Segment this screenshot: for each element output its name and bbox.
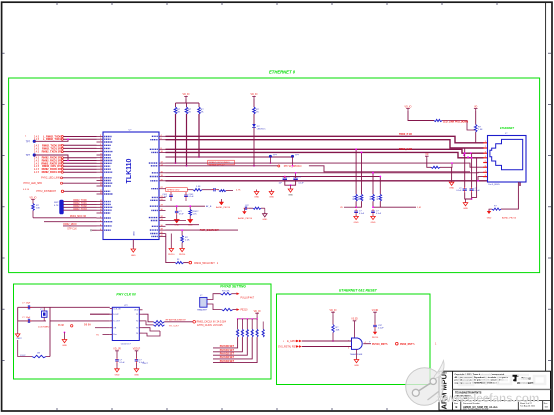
svg-text:PHY CLK IN: PHY CLK IN	[116, 292, 136, 296]
svg-text:RMII2_TXD1: RMII2_TXD1	[73, 203, 87, 205]
svg-text:RN?: RN?	[54, 202, 59, 204]
title block TI logo	[513, 375, 519, 382]
wire row 220 short	[166, 220, 187, 222]
svg-text:C? 18pF: C? 18pF	[22, 317, 31, 319]
junction dots RJ45 feed	[463, 154, 465, 156]
svg-text:10K: 10K	[336, 330, 340, 332]
connector J1 RJ45 body	[488, 136, 527, 183]
wire bus REF row	[166, 176, 381, 178]
svg-text:0.1uF: 0.1uF	[376, 213, 382, 215]
svg-text:VDD: VDD	[134, 310, 139, 312]
svg-text:PE210: PE210	[241, 310, 249, 312]
svg-text:VD_1R: VD_1R	[113, 349, 121, 351]
and gate U3 74AHC1G08	[352, 338, 363, 349]
wire bus RD+ row	[166, 149, 484, 153]
watermark circle logo	[406, 368, 444, 406]
svg-text:PHY2_LED_LINK: PHY2_LED_LINK	[41, 177, 60, 180]
svg-text:2.2K: 2.2K	[185, 240, 190, 242]
svg-text:47uF: 47uF	[179, 213, 184, 215]
IC U1 right pins	[159, 135, 166, 137]
svg-text:PHYAD2 SET: PHYAD2 SET	[220, 352, 235, 355]
svg-text:VD_IO: VD_IO	[254, 311, 261, 313]
svg-text:Rev: Rev	[544, 403, 548, 405]
svg-text:RMII2_50CLK/INT 1: RMII2_50CLK/INT 1	[194, 262, 219, 265]
svg-text:4.7K: 4.7K	[236, 190, 241, 192]
svg-text:L_RMII2_TXD1: L_RMII2_TXD1	[43, 137, 62, 141]
cap and resistor right cluster	[245, 207, 246, 210]
svg-text:GND: GND	[269, 197, 274, 199]
offpage label SPEED LED JUMBO	[208, 160, 235, 165]
capacitors C101 C102	[170, 192, 172, 194]
ground cluster caps mid	[256, 190, 258, 192]
title block frame	[439, 371, 551, 410]
resistor R 1.5K to VDD	[474, 109, 478, 111]
svg-text:RMII2_TXD2: RMII2_TXD2	[73, 206, 87, 208]
svg-text:ETHERNET 0&1 RESET: ETHERNET 0&1 RESET	[339, 288, 378, 292]
caps C bottom right pair	[464, 148, 466, 187]
svg-text:AGND_PE210: AGND_PE210	[216, 206, 231, 209]
ferrite bead FB center	[431, 166, 440, 168]
svg-text:SYS_RSTN, RST?: SYS_RSTN, RST?	[278, 346, 299, 349]
svg-text:GND: GND	[134, 374, 139, 376]
power VD reset pullup	[331, 312, 335, 314]
svg-text:0.1uF: 0.1uF	[378, 328, 384, 330]
svg-text:VD: VD	[425, 154, 429, 156]
test point TP1	[33, 140, 36, 143]
osc cap C2 with VD	[135, 351, 139, 353]
clock net labels	[164, 321, 192, 323]
wire AT_B row 206	[166, 205, 206, 207]
svg-text:PE210: PE210	[168, 254, 175, 256]
svg-text:RMII2_TXD0: RMII2_TXD0	[73, 200, 87, 202]
wire clock out path	[143, 314, 154, 322]
svg-text:AT_B: AT_B	[206, 205, 212, 208]
resistor R reset 10K	[332, 325, 334, 333]
LED D1 link branch	[252, 96, 256, 98]
svg-text:2.4.5: 2.4.5	[34, 145, 40, 147]
svg-text:2.4.5: 2.4.5	[34, 161, 40, 163]
section box ETHERNET 0 1 RESET	[277, 294, 431, 385]
reset input wires	[302, 340, 352, 342]
svg-text:4.7K: 4.7K	[54, 205, 59, 207]
section box ETHERNET 0	[9, 78, 540, 273]
resistor R_left 10K with VD_IO	[31, 200, 35, 202]
caps C pair row REF	[284, 176, 286, 179]
resistor R 2K LED row	[434, 119, 442, 121]
IC U2 pins	[110, 308, 113, 310]
IC U1 bottom pin and ground	[132, 240, 134, 248]
reset output	[363, 343, 371, 345]
svg-text:0.1uF: 0.1uF	[475, 190, 481, 192]
svg-text:2.4.5: 2.4.5	[34, 158, 40, 160]
power VD gate	[353, 321, 357, 323]
wire bus TD+ row	[166, 136, 484, 143]
wire bus AMDIX row	[166, 171, 484, 174]
svg-text:VD: VD	[474, 106, 478, 108]
wire bus RD- row	[166, 152, 484, 157]
svg-text:1,M: 1,M	[417, 207, 421, 209]
resistor R pulldown	[222, 308, 233, 310]
offpage label SPEED LED row2	[166, 188, 188, 192]
svg-text:PHYAD3 SET: PHYAD3 SET	[220, 356, 235, 359]
svg-text:OSC?: OSC?	[143, 363, 149, 365]
svg-text:RF ANTNA 50MB B?: RF ANTNA 50MB B?	[166, 318, 187, 321]
power VD at 408	[406, 109, 410, 111]
svg-text:RMII2_TXEN 3R: RMII2_TXEN 3R	[42, 150, 61, 154]
svg-text:10K: 10K	[252, 329, 254, 333]
svg-text:Cat 5_RJ45: Cat 5_RJ45	[488, 183, 500, 186]
gnd below center tap	[451, 167, 453, 180]
svg-text:PHY2_LED_SPD: PHY2_LED_SPD	[24, 182, 43, 185]
svg-text:2.4.5: 2.4.5	[34, 137, 40, 139]
svg-text:1.1K: 1.1K	[193, 213, 198, 215]
svg-text:VSS?: VSS?	[16, 338, 22, 340]
test point TP2	[33, 153, 36, 156]
svg-text:PHY10_RST?•: PHY10_RST?•	[372, 343, 388, 346]
svg-text:TP?: TP?	[26, 141, 31, 143]
svg-text:Tue Aug 16 2011: Tue Aug 16 2011	[520, 405, 536, 408]
section box PHY CLK IN	[14, 284, 272, 379]
svg-text:PHY2_INT/MDINT: PHY2_INT/MDINT	[36, 190, 56, 193]
RJ45 pin feed wires	[483, 142, 487, 144]
svg-text:RMII2_RXD1 3R: RMII2_RXD1 3R	[42, 170, 61, 174]
svg-text:GND: GND	[115, 374, 120, 376]
svg-text:PULLUP 4K7: PULLUP 4K7	[241, 298, 255, 300]
svg-text:PE210: PE210	[372, 337, 379, 339]
svg-text:VD_IO: VD_IO	[30, 197, 37, 199]
gate gnd	[356, 349, 358, 357]
svg-text:TRD0_N 1R: TRD0_N 1R	[399, 148, 412, 151]
svg-text:TRD0_P 1R: TRD0_P 1R	[399, 133, 412, 136]
svg-text:GND: GND	[262, 219, 267, 221]
svg-text:SPEED LED: SPEED LED	[167, 190, 180, 192]
svg-text:CDCLVC?: CDCLVC?	[121, 344, 132, 346]
resistor R 2.2K below	[181, 230, 183, 235]
svg-text:VDD1?: VDD1?	[133, 349, 141, 351]
wire bus LED_LINK row	[166, 156, 200, 158]
svg-text:0.1uF: 0.1uF	[189, 196, 195, 198]
svg-text:2.4.5: 2.4.5	[34, 172, 40, 174]
IC U1 left pins	[97, 136, 104, 138]
svg-text:10K: 10K	[36, 208, 40, 210]
op IC U1 TLK110 body	[103, 132, 159, 240]
svg-text:PE210: PE210	[179, 254, 186, 256]
crystal Y1	[42, 311, 48, 317]
connector J2 header	[200, 297, 207, 307]
svg-text:PHYAD0 SET: PHYAD0 SET	[220, 345, 235, 348]
wire bus TD- row	[166, 140, 484, 148]
svg-text:VD_IO: VD_IO	[405, 106, 412, 108]
junction dot TP row	[269, 155, 272, 158]
resistor R mid 1.5K row	[187, 189, 193, 191]
svg-text:1M: 1M	[37, 353, 40, 355]
svg-text:TLK110: TLK110	[126, 158, 133, 183]
svg-text:PM10_RST?•: PM10_RST?•	[400, 343, 415, 346]
svg-text:0.1uF: 0.1uF	[456, 190, 462, 192]
power VD center tap	[425, 156, 429, 158]
svg-text:TP?: TP?	[26, 155, 31, 157]
svg-text:GND: GND	[487, 218, 492, 220]
IC U2 clock buffer body	[112, 307, 139, 340]
svg-text:0.1uF: 0.1uF	[120, 362, 126, 364]
svg-text:C? 18pF: C? 18pF	[22, 302, 31, 304]
svg-text:24.576MHz?: 24.576MHz?	[38, 327, 51, 329]
resistor R pullup 4K7	[221, 293, 232, 295]
svg-text:VD_IO: VD_IO	[330, 310, 337, 312]
osc cap C1 with VD	[115, 351, 119, 353]
svg-text:CLK_IN: CLK_IN	[113, 308, 121, 310]
svg-text:VD: VD	[340, 207, 343, 209]
svg-text:GND: GND	[463, 208, 468, 210]
svg-text:GND: GND	[254, 197, 259, 199]
svg-text:RMII2_MDC 3R: RMII2_MDC 3R	[70, 216, 87, 218]
svg-text:GND: GND	[134, 231, 136, 236]
wire bus LED_ACT row	[166, 163, 484, 167]
svg-text:AGND_PE210: AGND_PE210	[502, 217, 517, 220]
PHYAD strap resistors 10K x5	[255, 313, 259, 315]
svg-text:1.5K: 1.5K	[478, 129, 483, 131]
svg-text:B: B	[456, 405, 458, 409]
svg-text:ETHERNET 0: ETHERNET 0	[269, 70, 296, 75]
svg-text:0.1uF: 0.1uF	[299, 183, 305, 185]
svg-text:V3.3D: V3.3D	[351, 319, 358, 321]
wire XI to osc	[46, 306, 110, 308]
svg-text:AGND_PE210: AGND_PE210	[238, 217, 253, 220]
wire osc mid rows	[90, 313, 110, 315]
svg-text:2.4.5: 2.4.5	[34, 169, 40, 171]
svg-text:2.4.5: 2.4.5	[34, 148, 40, 150]
svg-text:Date: Tuesday, August 16, 201: Date: Tuesday, August 16, 2011	[463, 408, 488, 411]
svg-text:TTL CLK?: TTL CLK?	[169, 326, 180, 328]
wire MDC MDIO rows	[33, 217, 97, 219]
frame zone tick marks	[56, 2, 58, 5]
svg-text:S_OUT: S_OUT	[113, 321, 120, 323]
wire clk row lower	[143, 328, 161, 331]
svg-text:GND: GND	[62, 345, 67, 347]
svg-text:VD_IO: VD_IO	[183, 94, 190, 96]
svg-text:PWR_DOWN/INT: PWR_DOWN/INT	[200, 229, 220, 232]
svg-text:RMII2_TXD3: RMII2_TXD3	[73, 209, 87, 211]
wire bus AVDD row	[166, 181, 521, 186]
svg-text:2.4.5: 2.4.5	[34, 163, 40, 165]
svg-text:LED_LINK PULLDOWN: LED_LINK PULLDOWN	[443, 122, 468, 124]
termination resistors 49.9 x4 with caps	[355, 149, 357, 194]
ground pair bottom mid	[170, 234, 172, 247]
svg-text:GND: GND	[288, 194, 293, 196]
svg-text:1.5K: 1.5K	[196, 186, 201, 188]
svg-text:GND: GND	[354, 365, 359, 367]
pull-up resistors R 2K x3 to VD_IO	[184, 96, 188, 98]
svg-text:GND: GND	[131, 255, 136, 257]
wire XO to osc	[50, 320, 110, 322]
crystal gnd	[17, 332, 19, 334]
svg-text:65 98: 65 98	[58, 325, 64, 327]
wire bus LED_SPD row	[166, 165, 278, 167]
power VD cap	[373, 312, 377, 314]
svg-text:ETHERNET: ETHERNET	[500, 126, 514, 130]
svg-text:GND: GND	[354, 222, 359, 224]
wire RMII2 50CLK bottom	[166, 234, 176, 263]
svg-text:PHYAD SETTING: PHYAD SETTING	[220, 285, 246, 289]
svg-text:STP CLK: STP CLK	[67, 228, 77, 230]
svg-text:GND: GND	[449, 188, 454, 190]
wire row 224 short	[166, 224, 200, 226]
svg-text:E_GPIO.4: E_GPIO.4	[287, 340, 299, 343]
svg-text:HEADER?: HEADER?	[197, 309, 208, 312]
capacitor C 47uF and R105	[176, 206, 178, 209]
svg-text:9/9 9H: 9/9 9H	[84, 325, 91, 327]
svg-text:PHY10_JPIOKO: PHY10_JPIOKO	[284, 165, 302, 168]
ferrite beads FB clk	[153, 320, 164, 323]
svg-text:PHYAD4 SET: PHYAD4 SET	[220, 360, 235, 363]
capacitor C 18pF top	[28, 305, 29, 309]
svg-text:2.4.5: 2.4.5	[34, 166, 40, 168]
svg-text:V3.3D: V3.3D	[372, 310, 379, 312]
svg-text:VD_IO: VD_IO	[251, 94, 258, 96]
gnd magenta mid	[64, 332, 66, 334]
crystal Y1 loop wires	[18, 306, 46, 308]
watermark chinese scribbles	[459, 375, 545, 385]
svg-text:4.3.10: 4.3.10	[23, 189, 30, 191]
RJ45 shield ground R	[501, 182, 518, 209]
svg-text:GND: GND	[371, 222, 376, 224]
svg-text:1OUT: 1OUT	[113, 314, 119, 316]
resistor network RN1 4.7K	[60, 200, 63, 214]
svg-text:ETH0_CLKIN 24.5.025: ETH0_CLKIN 24.5.025	[197, 324, 223, 327]
svg-text:PHYAD1 SET: PHYAD1 SET	[220, 349, 235, 352]
svg-text:Vss: Vss	[113, 334, 116, 336]
svg-text:LED/Grn: LED/Grn	[257, 128, 266, 131]
svg-text:2.4.5: 2.4.5	[34, 152, 40, 154]
svg-text:www.elecfans.com: www.elecfans.com	[436, 391, 539, 405]
svg-text:0.1uF: 0.1uF	[359, 213, 365, 215]
capacitor C 18pF bottom	[28, 319, 29, 323]
svg-text:R? 4.7K: R? 4.7K	[222, 290, 230, 292]
